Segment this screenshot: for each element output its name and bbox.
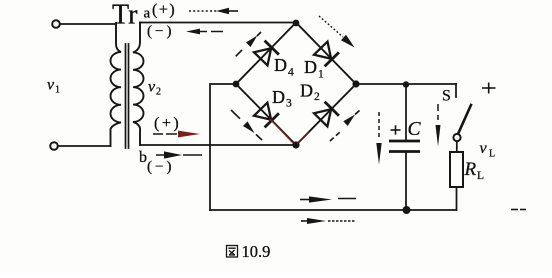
svg-text:4: 4 <box>288 67 294 79</box>
svg-text:(+): (+) <box>154 115 181 132</box>
svg-text:(−): (−) <box>147 159 174 175</box>
svg-text:D: D <box>300 81 313 101</box>
svg-text:1: 1 <box>318 69 324 81</box>
svg-text:R: R <box>464 159 477 180</box>
svg-text:D: D <box>272 87 285 107</box>
svg-text:(−): (−) <box>147 24 174 40</box>
svg-text:10.9: 10.9 <box>242 242 271 261</box>
svg-text:1: 1 <box>55 85 60 96</box>
svg-text:Tr: Tr <box>112 0 138 31</box>
svg-text:D: D <box>304 57 317 77</box>
svg-text:L: L <box>489 149 495 160</box>
svg-text:b: b <box>139 149 147 166</box>
svg-text:v: v <box>47 77 55 94</box>
svg-text:(+): (+) <box>152 2 176 19</box>
svg-text:D: D <box>274 55 287 75</box>
svg-text:3: 3 <box>286 98 292 110</box>
svg-text:2: 2 <box>314 91 320 103</box>
svg-text:a: a <box>144 6 151 22</box>
svg-text:C: C <box>408 119 422 140</box>
svg-text:L: L <box>477 170 484 182</box>
svg-text:v: v <box>148 79 156 96</box>
svg-text:S: S <box>442 88 451 105</box>
svg-text:2: 2 <box>156 87 161 98</box>
svg-text:v: v <box>480 140 488 157</box>
